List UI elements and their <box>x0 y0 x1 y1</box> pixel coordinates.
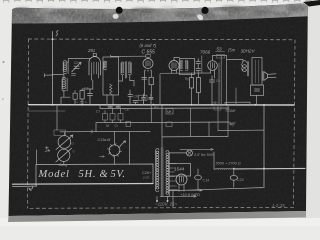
svg-text:C14: C14 <box>203 179 210 183</box>
tube V4 internals <box>211 63 215 69</box>
svg-text:C26+: C26+ <box>142 171 152 175</box>
wire: x100 drop <box>99 105 101 109</box>
svg-text:.1Mf: .1Mf <box>228 109 236 113</box>
can internal strokes <box>256 60 259 83</box>
IF/osc shield can 1 <box>103 57 119 95</box>
wire: vertical x228 <box>227 105 229 136</box>
tube V3 envelope <box>169 61 179 71</box>
small cap C10 <box>149 94 153 103</box>
resistor R3 under V2 <box>149 77 153 84</box>
small box Mf <box>166 109 173 115</box>
wire: V4 top to OT <box>213 56 227 61</box>
wire: choke left lead <box>214 168 216 170</box>
ruler tick marks top <box>4 0 312 2</box>
speaker cone <box>262 72 267 81</box>
wire: C24 stubs <box>233 169 235 187</box>
wire: transformer bottom leads <box>157 191 173 207</box>
small cap C6 on bus <box>133 101 138 105</box>
trimmer plus-arrow marks left of gang <box>45 146 50 151</box>
wire: box drops to lineB <box>105 108 121 122</box>
speaker field coil fork <box>268 74 277 78</box>
svg-text:+ .7.2 +: + .7.2 + <box>76 101 87 105</box>
capacitor C12 box top right <box>251 85 264 96</box>
svg-text:1-2-35: 1-2-35 <box>272 203 285 208</box>
model label box <box>36 164 153 185</box>
capacitor C7 <box>108 105 113 108</box>
wire: C12 to bus <box>256 96 258 105</box>
svg-text:~110V. 25~: ~110V. 25~ <box>155 201 177 206</box>
wire: vertical x236 <box>235 88 237 105</box>
tick on lineC <box>91 130 93 133</box>
svg-text:5000 + 2700 Ω: 5000 + 2700 Ω <box>216 162 241 166</box>
wire: lower stub line bottom left <box>13 185 37 187</box>
dial arrow <box>120 141 126 146</box>
wire: V4 legs <box>211 70 215 79</box>
output transformer coil <box>242 61 247 72</box>
resistor inside can1 <box>110 84 113 95</box>
small box Ar <box>103 114 108 121</box>
small labeled box on lineC left <box>54 130 66 135</box>
power transformer secondary winding <box>166 151 169 197</box>
svg-text:G: G <box>72 142 75 146</box>
tuning gang section 2 <box>58 149 70 161</box>
wire: line 191 <box>168 188 263 191</box>
svg-text:+5+: +5+ <box>213 101 219 105</box>
node dot lineE/V4 <box>263 168 265 170</box>
wire: R2 stubs <box>74 91 76 105</box>
wire: pilot leads <box>169 152 214 169</box>
wire: lineB left drop <box>95 123 97 132</box>
pilot lamp <box>187 150 193 156</box>
svg-text:Nf: Nf <box>106 124 109 128</box>
antenna lead wire <box>52 32 54 105</box>
svg-text:5H.: 5H. <box>79 169 97 180</box>
svg-text:Gang: Gang <box>59 163 68 167</box>
wire: dial stem <box>114 131 116 164</box>
wire: verticals to bus <box>130 100 151 105</box>
coil L2 core <box>66 78 68 91</box>
node junction dot <box>233 168 235 170</box>
node dots at plug leads <box>156 200 158 202</box>
trimmer C2 arrow <box>72 62 81 72</box>
gang2 arrow <box>56 148 72 162</box>
osc coil L3 left winding <box>121 62 124 75</box>
wire: V3 legs <box>172 70 177 74</box>
wire: lineC <box>60 130 150 133</box>
speck on left margin <box>3 61 5 63</box>
coil inside can1 <box>104 61 107 70</box>
capacitor C8 <box>116 105 121 108</box>
light flecks in band <box>40 6 290 15</box>
capacitor C4 <box>88 89 93 100</box>
svg-text:8mf: 8mf <box>229 122 236 126</box>
small box Cr <box>118 114 123 121</box>
photostat bottom grey strip <box>8 211 306 222</box>
resistor R6 <box>197 78 201 93</box>
svg-text:C6: C6 <box>134 95 139 99</box>
dashed border bottom <box>30 207 294 208</box>
white tear under right hole <box>197 14 203 20</box>
svg-text:(5m: (5m <box>228 48 236 53</box>
dark mottled patches in band <box>15 5 307 23</box>
svg-text:(6 and 7): (6 and 7) <box>140 43 157 48</box>
svg-text:C4: C4 <box>84 87 89 91</box>
wire: R5,R6,C11 to bus <box>192 73 213 105</box>
measure arrow line 1 <box>168 189 202 191</box>
small box Ns <box>110 114 115 121</box>
capacitor C11 <box>210 76 215 86</box>
antenna coil L1 winding <box>63 61 66 74</box>
IF2 trimmer 2 <box>196 67 201 74</box>
svg-text:C13a-M: C13a-M <box>98 138 111 142</box>
wire: V1 legs <box>92 74 99 89</box>
photostat top grey textured band <box>12 4 308 24</box>
rectifier box 1544 <box>169 164 191 177</box>
wire: V2 cap stub <box>147 57 149 58</box>
resistor R2 small <box>73 93 77 99</box>
svg-text:1544: 1544 <box>174 167 185 172</box>
tube V1 top cap nub <box>93 53 96 56</box>
plug hook bottom left <box>29 186 33 190</box>
IF can 2 <box>180 59 195 75</box>
svg-text:Model: Model <box>38 169 70 180</box>
ground stub left of antenna lead <box>45 74 53 77</box>
wire: OT top lead <box>227 56 244 105</box>
wire: line y136.6 <box>162 135 228 138</box>
tuning gang section 1 <box>58 136 71 149</box>
wire: vertical x162 <box>161 105 163 147</box>
resistor R1 (cathode) <box>80 91 84 100</box>
power transformer T core <box>161 148 163 197</box>
wire: mid horizontal under V3/V4 <box>160 72 211 74</box>
trimmer cap C2 plates <box>74 66 79 68</box>
IF2 coil b <box>185 60 188 71</box>
white chevron under right hole <box>113 14 119 19</box>
resistor R5 <box>190 78 194 89</box>
electrolytic C14 <box>195 175 202 180</box>
wire: vertical x201.8 <box>201 56 203 73</box>
svg-text:C7: C7 <box>96 110 100 114</box>
main ground bus (horizontal) <box>29 104 295 106</box>
wire: drop x218 from bus <box>217 105 219 131</box>
tube V4 envelope (output) <box>208 61 218 71</box>
wire: lineB <box>96 121 229 124</box>
dial rim ticks <box>108 143 122 157</box>
bottom bus (box bottom) <box>13 183 154 186</box>
wire: L2 bottom to bus <box>61 90 70 104</box>
field choke coil <box>216 168 235 171</box>
wire: vertical right of V4 <box>219 56 221 105</box>
wire: left vertical V2drop <box>36 150 38 186</box>
osc coil L3 core <box>126 62 127 79</box>
svg-text:G: G <box>73 150 76 154</box>
rectifier tube V5 <box>176 174 187 185</box>
wire: cluster to bus <box>82 89 93 105</box>
wire: faint lower-left horizontal <box>29 110 66 112</box>
pilot lamp X <box>188 151 192 155</box>
electrolytic C24 <box>230 175 237 180</box>
wire: primary feed <box>53 75 64 79</box>
small junction box on bus <box>214 106 221 111</box>
C12 cap plates <box>255 89 260 91</box>
svg-text:5V.: 5V. <box>111 169 126 180</box>
wire: y130 segment <box>218 129 264 131</box>
rectifier internals <box>180 177 184 183</box>
svg-text:C2: C2 <box>74 61 78 65</box>
wire: right vertical V4bus <box>263 105 265 188</box>
tube V2 top cap box <box>146 55 151 58</box>
svg-text:30H2V: 30H2V <box>241 49 256 54</box>
antenna squiggle symbol <box>56 31 58 37</box>
svg-text:Cr: Cr <box>115 124 119 128</box>
black corner mark top right <box>303 0 320 7</box>
IF2 trimmer 1 <box>196 59 201 67</box>
coil L2 winding <box>62 77 66 91</box>
punch hole left <box>116 7 123 14</box>
gang1 arrow <box>56 135 73 149</box>
small box under 53 <box>217 54 225 58</box>
tube V2 envelope <box>143 59 153 69</box>
wire: top cap line V1-V2 <box>111 55 146 57</box>
dashed border left <box>28 39 29 208</box>
dashed border right <box>294 40 296 207</box>
wire: L1 top to grid <box>67 59 91 63</box>
transformer taps <box>170 164 178 190</box>
wire: drop x129.5 <box>129 132 131 165</box>
wire: y102 segment <box>225 102 250 105</box>
svg-text:p.m.: p.m. <box>144 176 151 180</box>
small cap C3b <box>72 73 76 75</box>
small box on lineB <box>126 122 131 127</box>
wire: C2A stubs <box>197 169 199 190</box>
wire: L3 bottoms <box>119 75 135 86</box>
small box C8b <box>166 122 172 127</box>
punch hole right <box>201 7 208 14</box>
svg-text:2.5' for 5H5: 2.5' for 5H5 <box>193 153 214 157</box>
svg-text:Cv: Cv <box>216 79 220 83</box>
tube V1 internals <box>92 62 99 74</box>
svg-text:Ps: Ps <box>149 97 153 101</box>
wire: R3 to row <box>150 85 152 96</box>
wire: line y108 <box>100 107 229 110</box>
svg-text:C8: C8 <box>125 108 129 112</box>
antenna coil L1 core <box>67 62 69 74</box>
wire: rect legs to 191 line <box>179 185 184 192</box>
measure arrow line 2 <box>160 195 196 197</box>
tube V1 291 envelope (bulb) <box>89 57 100 75</box>
node dot busA/V4 <box>263 104 265 106</box>
wire: vertical x57 bus to lineC <box>56 105 58 130</box>
svg-text:Ry: Ry <box>185 77 189 81</box>
IF2 coil a <box>180 60 183 71</box>
V2 electrode dots <box>144 70 145 71</box>
svg-text:291: 291 <box>87 48 96 53</box>
svg-text:&: & <box>100 169 109 180</box>
wire: x151.3 drop <box>150 105 152 123</box>
output transformer can <box>252 58 262 86</box>
output transformer core <box>248 62 249 77</box>
svg-text:53: 53 <box>217 47 223 52</box>
wire: left drop from 74.5 <box>159 75 161 105</box>
tube V3 internals <box>172 63 176 69</box>
band grain overlay <box>12 4 308 24</box>
underline under 53 <box>216 51 225 53</box>
svg-text:Mf: Mf <box>167 110 171 114</box>
svg-text:7066: 7066 <box>200 50 211 55</box>
power transformer primary winding <box>155 149 158 192</box>
wire: long B+ line to right <box>235 167 305 170</box>
component row y94-102 small caps <box>128 90 133 100</box>
tiny cap marks near 226 <box>226 110 230 112</box>
tube V2 internals <box>146 61 150 67</box>
oscillator dial circle <box>109 145 120 156</box>
measure arrow above pilot <box>180 148 213 150</box>
capacitor C5 under V2 <box>142 78 147 80</box>
svg-text:C24: C24 <box>237 178 244 182</box>
tube V3 top cap <box>174 58 180 61</box>
wire: gang stem <box>63 132 66 165</box>
osc coil L3 right winding <box>128 62 131 75</box>
svg-text:Rw: Rw <box>154 106 159 110</box>
node: antenna entry dot <box>52 38 54 40</box>
dashed border top <box>29 38 296 41</box>
dial left pointer mark <box>100 156 105 158</box>
small box Ps <box>139 95 148 100</box>
bus junction dots <box>52 104 257 106</box>
wire: V2 legs <box>145 71 152 96</box>
wire: can1 stubs to bus <box>107 95 113 105</box>
wire: vertical x190.5 <box>190 108 192 137</box>
wire: vertical x209 <box>208 122 210 136</box>
small cap C9 <box>142 94 146 103</box>
